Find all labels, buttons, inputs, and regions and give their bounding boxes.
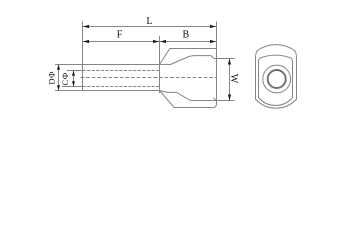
inner flare top [160,56,215,65]
center line [81,77,217,79]
L arrow right [210,25,216,28]
F dimension line [83,41,159,43]
W extension bottom [217,100,235,102]
B arrow left [160,40,166,43]
W arrow top [228,59,231,65]
svg-text:F: F [117,30,123,41]
svg-text:CΦ: CΦ [60,72,70,85]
mid extension line [159,36,161,93]
C dim tick bottom [62,86,83,88]
W dimension line [229,59,231,100]
tube barrel outline [83,65,160,91]
right extension line [216,22,218,49]
C dim tick top [67,70,83,72]
end view inner contour [259,55,293,105]
hidden hole line bottom [83,86,160,88]
L arrow left [83,25,89,28]
collar top taper [160,49,217,65]
B dimension line [160,41,216,43]
collar right edge [216,49,218,104]
tube end extension line [82,22,84,65]
F arrow left [83,40,89,43]
D arrow bottom [57,85,60,90]
inner flare bottom [160,91,217,101]
D arrow top [57,65,60,70]
D dimension line [58,65,60,90]
D dim tick bottom [55,90,83,92]
svg-text:W: W [228,74,239,84]
svg-text:DΦ: DΦ [47,71,57,85]
svg-text:B: B [182,30,189,41]
L dimension line [83,26,216,28]
B arrow right [210,40,216,43]
F arrow right [153,40,159,43]
end view inner circle [268,70,286,88]
C arrow top [72,71,75,76]
hidden hole line top [83,70,160,72]
flare bottom chamfer [213,98,216,100]
end view outer contour [256,45,297,109]
end view outer circle [263,65,291,93]
C dimension line [73,71,75,86]
D dim tick top [55,64,83,66]
W arrow bottom [228,95,231,101]
W extension top [214,58,235,60]
svg-text:L: L [146,16,152,27]
collar bottom taper [160,91,217,108]
C arrow bottom [72,81,75,86]
